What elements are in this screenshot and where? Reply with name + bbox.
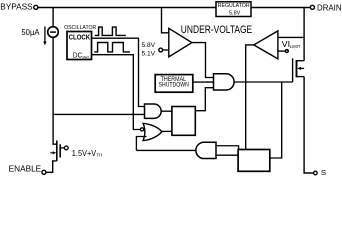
svg-text:MAX: MAX <box>83 55 90 59</box>
svg-text:5.8V: 5.8V <box>229 10 241 16</box>
svg-text:5.8V: 5.8V <box>142 42 156 49</box>
svg-text:OSCILLATOR: OSCILLATOR <box>64 25 96 31</box>
transistor Q2 enable FET <box>56 141 58 161</box>
svg-text:CLOCK: CLOCK <box>69 34 91 41</box>
wire enable node to AND1 lower input <box>53 113 144 115</box>
thermal shutdown box <box>155 75 193 93</box>
inverter bubble on NOR input <box>141 128 144 131</box>
wire top rail to UV comparator input <box>162 8 169 33</box>
wire drain vertical <box>303 8 305 61</box>
wire clock output <box>92 38 145 106</box>
and-gate U3 (3-input, drives gate net) <box>214 74 235 90</box>
terminal VILIMIT reference <box>285 49 288 52</box>
terminal S <box>314 171 318 175</box>
terminal BYPASS <box>34 5 38 9</box>
terminal 1.5V threshold <box>64 146 68 150</box>
terminal 5.8V/5.1V reference <box>159 48 163 52</box>
current source I1 <box>48 27 59 38</box>
wire NOR output to latch box A <box>162 130 172 132</box>
svg-text:LIMIT: LIMIT <box>290 44 301 49</box>
control box B <box>238 150 270 172</box>
and-gate U1 (clock gating) <box>145 104 162 118</box>
svg-text:ENABLE: ENABLE <box>9 164 42 174</box>
op-amp VILIMIT comparator <box>254 31 278 59</box>
wire box B to U4 upper input <box>216 146 239 150</box>
svg-text:50µA: 50µA <box>21 28 40 37</box>
wire VILIMIT reference stub <box>278 50 285 52</box>
svg-text:UNDER-VOLTAGE: UNDER-VOLTAGE <box>181 24 252 36</box>
current-source arrow <box>44 27 46 42</box>
wire MOSFET source to S terminal <box>304 77 314 173</box>
wire NOR bottom input riser <box>136 137 146 151</box>
transistor Q1 power MOSFET <box>292 58 294 82</box>
enable FET arrow <box>50 152 53 154</box>
svg-text:REGULATOR: REGULATOR <box>218 3 250 9</box>
oscillator box <box>67 32 92 60</box>
wire UV output to AND3 <box>192 43 214 78</box>
wire AND1 output to latch box A <box>161 110 172 112</box>
svg-text:TH: TH <box>96 153 102 158</box>
svg-text:SHUTDOWN: SHUTDOWN <box>159 83 189 89</box>
terminal DRAIN <box>310 5 314 9</box>
wire latch box A to AND3 lower input <box>195 88 213 111</box>
wire current source down to enable FET drain <box>53 37 57 144</box>
svg-text:5.1V: 5.1V <box>142 50 156 57</box>
regulator box <box>216 2 251 17</box>
svg-text:BYPASS: BYPASS <box>0 1 33 11</box>
wire top rail left (BYPASS to regulator) <box>38 7 216 9</box>
clock waveform glyph <box>95 27 126 35</box>
svg-text:1.5V+V: 1.5V+V <box>72 148 97 158</box>
wire thermal output to AND3 <box>193 81 214 83</box>
wire U4 output left and up to NOR input <box>136 149 195 151</box>
and-gate U4 (left pointing) <box>196 142 216 158</box>
nor-gate U2 (with inverted input) <box>143 123 162 140</box>
wire bypass to current source <box>52 8 54 27</box>
svg-text:DC: DC <box>73 52 82 59</box>
op-amp UV comparator <box>169 28 192 57</box>
svg-text:S: S <box>321 168 326 176</box>
wire box B to U4 lower input <box>216 154 238 156</box>
wire reference to UV comparator <box>163 49 169 51</box>
wire gate net (AND3 out to MOSFET gate) <box>234 81 293 83</box>
wire gate net branch down to box B <box>270 82 282 158</box>
terminal ENABLE <box>42 170 46 174</box>
wire drain sense to VILIMIT comparator input <box>278 36 304 38</box>
wire top rail right (regulator to DRAIN) <box>251 7 310 9</box>
latch box A <box>172 107 195 136</box>
wire dcmax output <box>92 55 141 130</box>
dcmax waveform glyph <box>94 43 130 52</box>
wire VILIMIT output down to box B <box>246 45 254 150</box>
svg-text:DRAIN: DRAIN <box>317 2 342 12</box>
